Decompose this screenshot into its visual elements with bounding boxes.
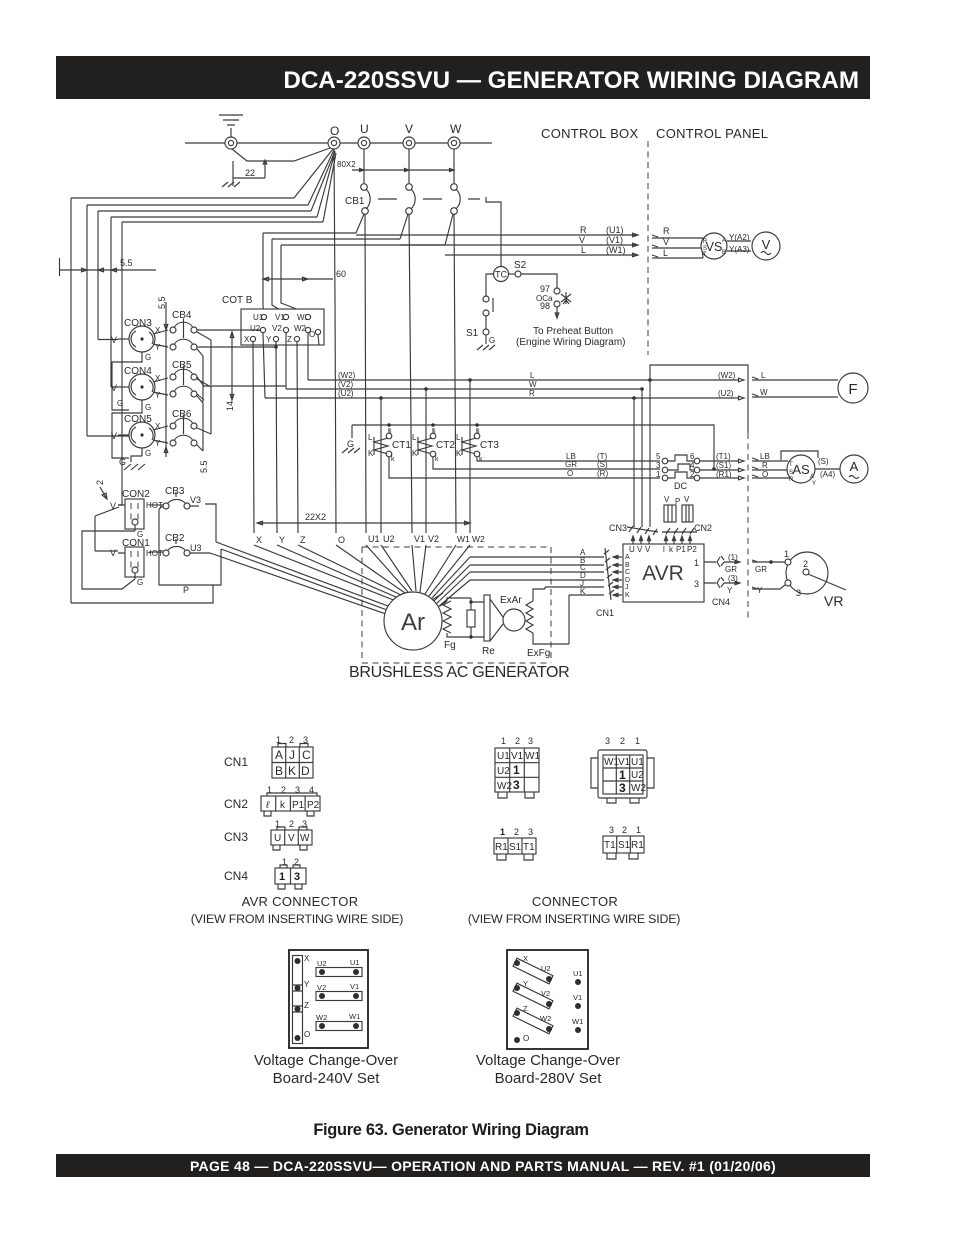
varistor small box (467, 598, 475, 639)
svg-text:W1: W1 (525, 751, 540, 762)
terminal block COT B (222, 295, 324, 345)
svg-text:CON5: CON5 (124, 414, 152, 425)
svg-text:BRUSHLESS AC GENERATOR: BRUSHLESS AC GENERATOR (349, 664, 569, 681)
wire W2 pin down to (W2) bus (307, 333, 309, 380)
wire Z down to fan (297, 342, 298, 533)
connector CN3 pinout (224, 819, 312, 850)
svg-text:(VIEW FROM INSERTING WIRE SIDE: (VIEW FROM INSERTING WIRE SIDE) (468, 912, 681, 926)
connector CN3 hatch (609, 523, 658, 544)
svg-text:Re: Re (482, 646, 495, 657)
svg-text:2: 2 (95, 480, 105, 485)
connector CN1 hatch (596, 548, 622, 618)
svg-text:U2: U2 (631, 770, 644, 781)
svg-text:A: A (722, 238, 726, 244)
svg-text:CONTROL PANEL: CONTROL PANEL (656, 126, 768, 141)
slanted jumper Y-V2 (513, 979, 553, 1009)
svg-text:CB3: CB3 (165, 486, 185, 497)
wire U2 fan vertical (380, 398, 382, 533)
svg-text:5.5: 5.5 (120, 258, 133, 268)
svg-text:V1: V1 (618, 757, 631, 768)
svg-text:W2: W2 (631, 783, 646, 794)
wire O pin stub (318, 335, 319, 345)
svg-text:Y: Y (812, 481, 816, 487)
wire neutral link (232, 148, 330, 161)
svg-text:S1: S1 (618, 840, 631, 851)
svg-text:V: V (111, 431, 117, 441)
wire V2 fan vertical (425, 389, 427, 533)
wire J row (545, 587, 604, 589)
wire DC out rows (700, 459, 744, 480)
svg-text:K: K (456, 449, 462, 458)
receptacle CON4 (111, 366, 168, 458)
fan labels (256, 534, 485, 545)
svg-text:V: V (762, 237, 771, 252)
svg-text:CN1: CN1 (596, 608, 614, 618)
svg-text:l: l (663, 545, 665, 554)
svg-text:(V1): (V1) (606, 235, 623, 245)
svg-text:2: 2 (289, 819, 294, 829)
svg-text:P1: P1 (292, 800, 305, 811)
generator dashed enclosure (362, 547, 551, 663)
svg-text:D: D (625, 577, 630, 584)
jumper bar W2-W1 (316, 1012, 362, 1031)
svg-text:CB1: CB1 (345, 196, 365, 207)
svg-text:L: L (368, 433, 373, 442)
wire top bus (185, 142, 492, 144)
svg-text:(W1): (W1) (606, 245, 626, 255)
svg-text:V3: V3 (190, 495, 201, 505)
svg-text:CN3: CN3 (609, 523, 627, 533)
svg-text:14: 14 (225, 401, 235, 411)
svg-text:Y(A3): Y(A3) (729, 245, 750, 254)
svg-text:GR: GR (565, 460, 577, 469)
svg-text:3: 3 (656, 461, 661, 470)
svg-text:W2: W2 (294, 324, 307, 333)
svg-text:1: 1 (513, 763, 520, 777)
svg-text:U1: U1 (350, 958, 360, 967)
svg-text:3: 3 (513, 778, 520, 792)
svg-text:Y: Y (727, 586, 733, 595)
svg-text:R: R (703, 239, 708, 245)
svg-text:1: 1 (635, 736, 640, 746)
contact 97 (554, 288, 560, 294)
svg-text:W: W (760, 388, 768, 397)
wire bottom run (71, 585, 213, 603)
wire U2 pin down to (U2) bus (263, 333, 265, 398)
jumper bar U2-U1 (316, 958, 362, 977)
svg-text:CON2: CON2 (122, 489, 150, 500)
svg-text:1: 1 (501, 736, 506, 746)
svg-text:Z: Z (300, 535, 306, 545)
svg-text:O: O (523, 1034, 529, 1043)
svg-text:J: J (289, 748, 295, 762)
svg-text:V: V (579, 235, 585, 245)
svg-text:CB2: CB2 (165, 533, 185, 544)
svg-text:U1: U1 (497, 751, 510, 762)
terminal W (448, 137, 460, 149)
svg-text:(A4): (A4) (820, 470, 835, 479)
svg-text:R: R (580, 225, 587, 235)
svg-text:F: F (848, 381, 857, 398)
meter VS (701, 233, 727, 259)
svg-text:CT3: CT3 (480, 440, 499, 451)
svg-text:1: 1 (636, 825, 641, 835)
svg-text:Y: Y (757, 586, 763, 595)
svg-text:A: A (625, 554, 630, 561)
connector strip left R1S1T1 (494, 827, 536, 860)
wire fan to Ar (254, 545, 470, 601)
wire X down to fan (253, 342, 254, 533)
svg-text:Voltage Change-Over: Voltage Change-Over (476, 1052, 620, 1069)
svg-text:U2: U2 (541, 964, 551, 973)
svg-text:Fg: Fg (444, 640, 456, 651)
wire corner to F panel (650, 365, 748, 433)
svg-text:T: T (703, 252, 707, 258)
wire CON feeds (87, 340, 129, 506)
divider dashed control box/panel (647, 141, 649, 355)
bus (W2) (308, 378, 744, 382)
svg-text:V: V (111, 383, 117, 393)
ground main left (119, 456, 145, 470)
wire Y down to fan (276, 342, 277, 533)
svg-text:R1: R1 (495, 842, 508, 853)
svg-text:C: C (302, 748, 311, 762)
bus (V2) (286, 388, 642, 390)
svg-text:K: K (368, 449, 374, 458)
svg-text:(S1): (S1) (716, 461, 731, 470)
wire A row (432, 557, 604, 598)
terminal O (514, 1037, 520, 1043)
svg-text:AS: AS (792, 462, 810, 477)
svg-text:(Engine Wiring Diagram): (Engine Wiring Diagram) (516, 337, 625, 348)
svg-text:3: 3 (294, 871, 300, 883)
transformer CT3 (456, 428, 499, 463)
wire V3 out (190, 504, 216, 542)
terminals U1 V1 W1 (572, 969, 583, 1033)
connector grid left (495, 736, 540, 798)
generator armature Ar (384, 592, 442, 650)
svg-text:1: 1 (279, 871, 285, 883)
svg-text:W1: W1 (457, 534, 470, 544)
dimension 80X2 (337, 160, 454, 172)
wire CT1 k to R row (389, 457, 660, 478)
terminal U (358, 137, 370, 149)
svg-text:k: k (479, 456, 483, 463)
svg-text:DCA-220SSVU — GENERATOR WIRING: DCA-220SSVU — GENERATOR WIRING DIAGRAM (283, 67, 859, 94)
svg-text:W: W (300, 833, 310, 844)
receptacle CON5 (111, 414, 168, 458)
svg-text:A: A (810, 474, 814, 480)
svg-text:(W2): (W2) (338, 371, 356, 380)
wire CT common bus (352, 425, 714, 469)
svg-text:B: B (625, 562, 630, 569)
potentiometer VR (752, 549, 846, 609)
svg-text:5.5: 5.5 (157, 296, 167, 309)
svg-text:CN4: CN4 (224, 869, 248, 883)
svg-text:3: 3 (796, 588, 801, 598)
receptacle CON2 (110, 489, 163, 539)
svg-text:PAGE 48 — DCA-220SSVU— OPERAT: PAGE 48 — DCA-220SSVU— OPERATION AND PAR… (190, 1158, 776, 1174)
dimension 5.5 horizontal (60, 258, 157, 276)
board 240V box (289, 950, 368, 1048)
svg-text:R: R (789, 477, 794, 483)
svg-text:G: G (347, 439, 354, 449)
svg-text:T1: T1 (523, 842, 535, 853)
slanted jumper Z-W2 (513, 1004, 553, 1034)
svg-text:X: X (244, 335, 250, 344)
connector grid right (591, 736, 654, 803)
svg-text:O: O (330, 124, 339, 138)
connector CN2 pinout (224, 785, 320, 816)
svg-text:Figure 63. Generator Wiring Di: Figure 63. Generator Wiring Diagram (313, 1121, 588, 1139)
svg-text:V: V (663, 237, 669, 247)
svg-text:L: L (663, 248, 668, 258)
brush plate Re (471, 595, 495, 657)
svg-text:3: 3 (619, 781, 626, 795)
wire CB box (159, 506, 221, 585)
svg-text:A: A (275, 748, 283, 762)
svg-text:U1: U1 (573, 969, 583, 978)
svg-text:(T1): (T1) (716, 452, 731, 461)
terminal O (328, 137, 340, 149)
relay TC (494, 267, 509, 282)
svg-text:AVR: AVR (642, 562, 684, 585)
svg-text:L: L (456, 433, 461, 442)
svg-text:A: A (850, 459, 859, 474)
svg-text:S: S (789, 470, 793, 476)
svg-text:V2: V2 (272, 324, 282, 333)
svg-text:3: 3 (605, 736, 610, 746)
svg-text:V: V (664, 495, 670, 504)
svg-text:To Preheat Button: To Preheat Button (533, 326, 613, 337)
svg-text:L: L (761, 371, 766, 380)
svg-text:CT1: CT1 (392, 440, 411, 451)
wire CT2 k to S row (433, 457, 660, 469)
terminal V (403, 137, 415, 149)
svg-text:R1: R1 (631, 840, 644, 851)
board 280V box (507, 950, 588, 1049)
wire U1 phase vertical (365, 214, 366, 533)
wire U3 out (190, 552, 210, 554)
svg-text:U2: U2 (497, 766, 510, 777)
svg-text:L: L (581, 245, 586, 255)
svg-text:V: V (288, 833, 295, 844)
svg-text:G: G (145, 353, 151, 362)
svg-text:W2: W2 (540, 1014, 551, 1023)
svg-text:5.5: 5.5 (199, 460, 209, 473)
ground at CT bus (342, 425, 360, 453)
wire R line (356, 233, 638, 237)
svg-text:Board-280V Set: Board-280V Set (495, 1070, 603, 1087)
arrow to preheat (555, 307, 559, 318)
svg-text:(VIEW FROM INSERTING WIRE SIDE: (VIEW FROM INSERTING WIRE SIDE) (191, 912, 404, 926)
breaker CB5 (170, 360, 211, 451)
svg-text:V: V (110, 548, 116, 558)
svg-text:3: 3 (528, 827, 533, 837)
svg-text:VR: VR (824, 593, 843, 609)
svg-text:S1: S1 (509, 842, 522, 853)
svg-text:T: T (789, 462, 793, 468)
svg-text:R: R (529, 389, 535, 398)
svg-text:K: K (412, 449, 418, 458)
wire B row (434, 565, 604, 601)
header bar (56, 56, 870, 99)
svg-text:W1: W1 (349, 1012, 360, 1021)
switch S2 (508, 260, 557, 288)
wire U2 bus to CN3 (633, 398, 635, 527)
svg-text:VS: VS (706, 240, 723, 254)
wire W1 phase vertical (454, 214, 456, 533)
wire F lines after divider (752, 377, 838, 397)
contact 98 (554, 301, 560, 307)
svg-text:2: 2 (803, 559, 808, 569)
svg-text:CON3: CON3 (124, 318, 152, 329)
svg-text:U2: U2 (383, 534, 395, 544)
svg-text:P2: P2 (687, 545, 697, 554)
svg-text:B: B (722, 250, 726, 256)
svg-text:Y(A2): Y(A2) (729, 233, 750, 242)
dimension 5.5 vertical at CB chain (157, 296, 209, 473)
svg-text:X: X (256, 535, 262, 545)
svg-text:CONTROL BOX: CONTROL BOX (541, 126, 638, 141)
svg-text:1: 1 (619, 768, 626, 782)
svg-text:3: 3 (528, 736, 533, 746)
svg-text:80X2: 80X2 (337, 160, 356, 169)
svg-text:U2: U2 (317, 959, 327, 968)
svg-text:CN3: CN3 (224, 830, 248, 844)
svg-text:D: D (301, 764, 310, 778)
resistor Fg (432, 593, 471, 651)
svg-text:COT B: COT B (222, 295, 253, 306)
dimension 14 (225, 332, 235, 411)
breaker CB1 (345, 149, 480, 214)
svg-text:(U2): (U2) (718, 389, 734, 398)
connector CN1 pinout (224, 735, 313, 778)
rectifier DC block (656, 452, 700, 491)
svg-text:V2: V2 (541, 989, 550, 998)
svg-text:ExAr: ExAr (500, 595, 522, 606)
svg-text:V: V (637, 545, 643, 554)
svg-text:K: K (580, 587, 586, 596)
connector strip right T1S1R1 (603, 825, 644, 859)
meter F (838, 373, 868, 403)
wire bundle left horizontals (71, 198, 323, 222)
svg-text:G: G (145, 403, 151, 412)
svg-text:V: V (645, 545, 651, 554)
wire bundle left verticals (71, 198, 122, 603)
dimension 22 (222, 160, 267, 187)
junction dots on buses (468, 378, 472, 382)
wire CB5-Y diag (197, 394, 204, 400)
wire V line (400, 243, 638, 247)
svg-text:AVR CONNECTOR: AVR CONNECTOR (242, 894, 359, 909)
svg-text:1: 1 (784, 549, 789, 559)
svg-text:2: 2 (289, 735, 294, 745)
svg-text:5: 5 (656, 452, 661, 461)
wire CT3 k to T row (477, 457, 660, 461)
wire CB1-U to COT B feed (263, 214, 364, 313)
wire V2 pin down to (V2) bus (285, 333, 287, 389)
svg-text:3: 3 (694, 579, 699, 589)
svg-text:W2: W2 (497, 781, 512, 792)
svg-text:G: G (119, 457, 126, 467)
jumper strip XYZO (293, 954, 311, 1044)
svg-text:Z: Z (304, 1001, 309, 1010)
svg-text:V: V (684, 495, 690, 504)
svg-text:(V2): (V2) (338, 380, 353, 389)
svg-text:K: K (625, 592, 630, 599)
svg-text:S2: S2 (514, 260, 527, 271)
wire C row (436, 572, 604, 604)
svg-text:G: G (137, 578, 143, 587)
svg-text:P: P (183, 585, 189, 595)
svg-text:U: U (629, 545, 635, 554)
breaker CB4 (170, 310, 211, 402)
jumper pins V P V (664, 495, 693, 522)
svg-text:1: 1 (694, 558, 699, 568)
svg-text:Z: Z (523, 1004, 528, 1013)
svg-text:U2: U2 (250, 324, 261, 333)
svg-text:W: W (450, 122, 462, 136)
svg-text:T1: T1 (604, 840, 616, 851)
wire D row (438, 580, 604, 607)
svg-text:2: 2 (514, 827, 519, 837)
meter AS (781, 451, 818, 487)
svg-text:O: O (567, 469, 573, 478)
svg-text:(U1): (U1) (606, 225, 624, 235)
svg-text:DC: DC (674, 481, 687, 491)
wire CB4-Y junction (197, 346, 276, 348)
svg-text:22X2: 22X2 (305, 512, 326, 522)
svg-text:(R): (R) (597, 469, 608, 478)
svg-text:2: 2 (622, 825, 627, 835)
svg-text:U1: U1 (368, 534, 380, 544)
relay TC branch (486, 197, 501, 267)
svg-text:(S): (S) (818, 457, 829, 466)
svg-text:Y: Y (279, 535, 285, 545)
wire panel side rows to AS (752, 458, 790, 478)
breaker CB3 (149, 486, 201, 509)
svg-text:W2: W2 (316, 1013, 327, 1022)
wire CB1-W to COT B feed (281, 214, 453, 313)
breaker CB2 (149, 533, 202, 556)
svg-text:L: L (530, 371, 535, 380)
svg-text:CN4: CN4 (712, 597, 730, 607)
svg-text:CONNECTOR: CONNECTOR (532, 894, 618, 909)
svg-text:W2: W2 (472, 534, 485, 544)
breaker CB6 (170, 409, 211, 451)
svg-text:S1: S1 (466, 328, 479, 339)
svg-text:O: O (338, 535, 345, 545)
svg-text:1: 1 (656, 470, 661, 479)
meter V (752, 232, 780, 260)
svg-text:2: 2 (515, 736, 520, 746)
wire AS to A (815, 468, 840, 470)
meter A (840, 455, 868, 483)
svg-text:1: 1 (500, 827, 505, 837)
svg-text:L: L (412, 433, 417, 442)
svg-text:K: K (288, 764, 296, 778)
svg-text:X: X (304, 954, 310, 963)
svg-text:X: X (523, 954, 528, 963)
svg-text:22: 22 (245, 168, 255, 178)
wire CON2 G loop (82, 531, 135, 578)
wire V1 phase vertical (409, 214, 412, 533)
svg-text:60: 60 (336, 269, 346, 279)
svg-text:(S): (S) (597, 460, 608, 469)
symbol asterisk (561, 292, 571, 304)
wire diagonals to generator (210, 542, 388, 614)
